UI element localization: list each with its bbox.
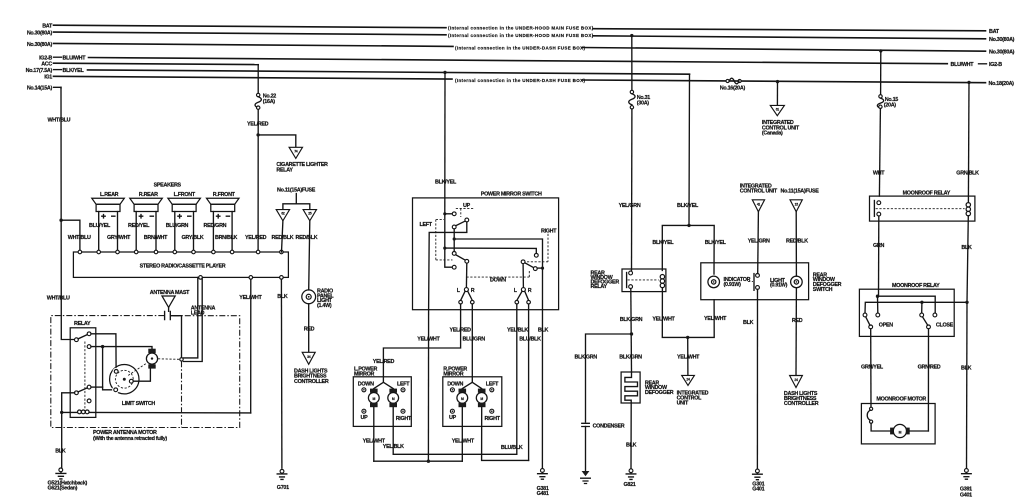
svg-text:L: L	[514, 288, 518, 294]
junction dot3 BLK	[541, 267, 544, 270]
ground condenser (filled)	[582, 471, 590, 476]
wire relay coil down to YEL/WHT merge	[662, 288, 687, 338]
box MOONROOF SWITCH (labelled MOONROOF RELAY)	[859, 289, 954, 336]
wire WHT/BLU branch to radio	[61, 220, 80, 250]
wire BLK to ground G391/G401	[966, 302, 969, 468]
svg-text:RED/YEL: RED/YEL	[128, 223, 150, 229]
svg-text:L.REAR: L.REAR	[100, 192, 119, 198]
contact E	[465, 259, 469, 263]
svg-text:YEL/GRN: YEL/GRN	[748, 238, 770, 244]
lamp LIGHT	[791, 276, 803, 288]
dash-dot link motor to antenna junction	[158, 358, 180, 361]
contact relay lower throw A	[87, 385, 91, 389]
contact defogger relay bottom	[629, 285, 633, 289]
symbol circle-dot DOWN (R)	[450, 388, 454, 392]
wire E to L-R selector left	[465, 263, 467, 288]
svg-text:ANTENNA MAST: ANTENNA MAST	[150, 290, 190, 296]
svg-text:YEL/RED: YEL/RED	[245, 235, 267, 241]
svg-text:G401: G401	[752, 487, 764, 493]
wire R motor1 return YEL/WHT	[461, 407, 463, 461]
svg-text:WHT/BLU: WHT/BLU	[47, 296, 70, 302]
svg-text:(Internal connection in the UN: (Internal connection in the UNDER-DASH F…	[455, 45, 585, 50]
ground G381/G481	[541, 469, 545, 473]
wire BLK/GRN main from relay	[630, 289, 633, 373]
motor L2	[389, 389, 397, 393]
box RELAY (power antenna)	[70, 328, 96, 418]
symbol circle-dot UP (L)	[362, 409, 366, 413]
wire YEL/GRN ICU to switch	[757, 212, 760, 274]
junction YEL/RED to cigarette lighter relay	[256, 133, 259, 136]
svg-text:DEFOGGER: DEFOGGER	[645, 390, 674, 396]
fork YEL/RED to motors (L)	[374, 382, 393, 388]
svg-text:RED: RED	[792, 318, 803, 324]
svg-text:(20A): (20A)	[884, 103, 896, 109]
svg-text:R: R	[528, 288, 532, 294]
relay arm bar	[626, 273, 628, 288]
switch arm relay lower	[78, 388, 87, 392]
dashed link motor to limit switch	[128, 364, 146, 376]
svg-text:YEL/WHT: YEL/WHT	[652, 316, 675, 322]
wire No.31 drop from No.30 lane1	[631, 36, 633, 91]
svg-text:G401: G401	[960, 492, 972, 498]
wire BLK return to CLOSE left contact	[921, 302, 923, 313]
wire limit switch wiper to motor lower brush	[133, 369, 150, 382]
svg-text:WHT/BLU: WHT/BLU	[48, 118, 71, 124]
svg-text:DOWN: DOWN	[490, 278, 506, 284]
symbol circle-dot LEFT (R)	[490, 388, 494, 392]
svg-text:YEL/RED: YEL/RED	[247, 121, 269, 127]
contact OPEN right	[876, 313, 880, 317]
wire YEL/BLK	[516, 304, 518, 454]
svg-text:YEL/WHT: YEL/WHT	[239, 295, 262, 301]
svg-text:BLU/BLK: BLU/BLK	[501, 445, 523, 451]
svg-text:L.FRONT: L.FRONT	[174, 192, 196, 198]
dashed link arm to coil	[628, 279, 659, 281]
svg-text:MIRROR: MIRROR	[354, 371, 374, 377]
svg-text:LEFT: LEFT	[420, 222, 433, 228]
contact D	[452, 252, 456, 256]
svg-text:MOONROOF MOTOR: MOONROOF MOTOR	[876, 396, 926, 402]
svg-text:IG2-B: IG2-B	[989, 62, 1002, 68]
relay arm bar (moonroof)	[873, 201, 875, 217]
svg-text:BLK: BLK	[743, 320, 754, 326]
wire coupling to drive line	[171, 316, 182, 358]
svg-text:DOWN: DOWN	[447, 381, 463, 387]
svg-text:BLK/YEL: BLK/YEL	[677, 203, 699, 209]
svg-text:25: 25	[308, 212, 312, 216]
svg-text:R.FRONT: R.FRONT	[213, 192, 236, 198]
breaker arc	[867, 410, 870, 420]
junction WHT/BLU to radio	[59, 219, 62, 222]
junction YEL/WHT merge	[686, 336, 689, 339]
svg-text:(Internal connection in the UN: (Internal connection in the UNDER-HOOD M…	[448, 33, 594, 38]
svg-text:RED/BLK: RED/BLK	[786, 238, 808, 244]
wire BLK from radio bottom to G701	[280, 279, 283, 468]
switch arm relay upper	[78, 335, 87, 339]
wire coil line to YEL/WHT run	[62, 411, 251, 414]
junction IG1 to ICU Canada drop	[776, 80, 779, 83]
label DOWN with dashed link	[467, 271, 530, 277]
wire BLK return line	[865, 302, 967, 313]
wire BLK to G821	[630, 403, 632, 469]
ground G391/G401	[965, 469, 969, 473]
svg-text:M: M	[899, 430, 902, 434]
wire ACC bus line	[54, 63, 259, 64]
svg-text:41: 41	[757, 203, 761, 207]
contact relay upper common	[75, 338, 79, 342]
wire YEL/GRN from fuse No.31 to defogger relay	[631, 109, 633, 271]
svg-text:BLK/YEL: BLK/YEL	[705, 240, 727, 246]
svg-text:BRN/BLK: BRN/BLK	[215, 235, 238, 241]
svg-text:WHT/BLU: WHT/BLU	[68, 235, 91, 241]
contact C	[452, 225, 456, 229]
wire WHT/BLU main vertical	[61, 87, 75, 339]
wire RED/BLK to radio	[282, 221, 283, 252]
wire I to BLK riser	[537, 267, 542, 269]
switch contacts (defogger switch)	[756, 274, 760, 278]
svg-text:SPEAKERS: SPEAKERS	[154, 183, 182, 189]
contact CLOSE bottom	[927, 325, 931, 329]
SEC-DEFOG	[575, 74, 842, 492]
coil power antenna relay	[78, 410, 82, 414]
contact OPEN left	[863, 313, 867, 317]
junction column to right switch feed	[453, 237, 456, 240]
wire IG2-B BLU/WHT bus line	[54, 56, 62, 58]
wire breaker to motor	[871, 423, 890, 431]
SEC-SPEAKERS	[89, 183, 318, 252]
contact G	[521, 260, 525, 264]
wire lower ground net	[62, 393, 75, 468]
wire GRN/YEL to motor	[870, 329, 872, 408]
wire No.30(80A) bus line 2	[54, 43, 454, 46]
svg-text:LEFT: LEFT	[486, 381, 499, 387]
contact moonroof relay top	[877, 201, 881, 205]
svg-text:YEL/BLK: YEL/BLK	[507, 328, 528, 334]
wire BLK/YEL continues to dot2	[445, 214, 453, 267]
wire No.17(7.5A) BLK/YEL bus line	[54, 69, 62, 71]
motor L1	[370, 389, 378, 393]
wire GRN feed to CLOSE side	[878, 296, 936, 313]
junction on BLK/YEL lane at mirror-switch drop	[443, 71, 446, 74]
wire G to L-R selector right	[522, 264, 524, 288]
wire dot2 to contact H	[445, 248, 537, 253]
svg-text:DOWN: DOWN	[358, 381, 374, 387]
svg-text:BLU/BLK: BLU/BLK	[519, 336, 541, 342]
SEC-RADIO	[73, 188, 334, 491]
svg-text:UP: UP	[449, 415, 457, 421]
svg-text:15: 15	[795, 203, 799, 207]
svg-text:RED: RED	[304, 326, 315, 332]
antenna lead double line	[183, 277, 197, 358]
svg-text:CONDENSER: CONDENSER	[593, 424, 625, 430]
svg-text:(Canada): (Canada)	[762, 131, 783, 137]
wire BLU/BLK	[528, 304, 530, 460]
wire relay throw NC to limit switch top contact	[91, 334, 116, 370]
junction dot2	[443, 247, 446, 250]
antenna mast symbol	[162, 296, 175, 307]
svg-text:No.30(80A): No.30(80A)	[27, 31, 53, 37]
wire stub to contact A	[445, 213, 453, 215]
box MOONROOF RELAY	[870, 196, 975, 221]
svg-text:RELAY: RELAY	[591, 284, 608, 290]
svg-text:M: M	[392, 397, 395, 401]
contact OPEN bottom	[869, 325, 873, 329]
svg-text:(With the antenna retracted fu: (With the antenna retracted fully)	[93, 436, 167, 442]
box REAR WINDOW DEFOGGER SWITCH	[701, 263, 809, 300]
fuse No.31 (30A)	[630, 90, 633, 93]
svg-text:CONTROLLER: CONTROLLER	[294, 379, 329, 385]
svg-text:IG1: IG1	[44, 75, 52, 81]
svg-text:BLK: BLK	[538, 328, 549, 334]
contact limit switch wiper	[129, 379, 133, 383]
box STEREO RADIO/CASSETTE PLAYER	[73, 252, 288, 277]
wire RED to dash lights controller (right)	[795, 288, 797, 376]
svg-text:G821: G821	[624, 482, 636, 488]
wire condenser to ground	[585, 427, 587, 472]
terminals radio bottom edge	[199, 276, 203, 280]
fuse No.22 (16A)	[257, 93, 260, 96]
svg-text:24: 24	[794, 378, 798, 382]
dashed link arm to coil (moonroof)	[876, 208, 965, 210]
wire GRN/RED to motor	[927, 329, 929, 431]
drive motor (power antenna)	[148, 349, 155, 353]
svg-text:RIGHT: RIGHT	[541, 229, 557, 235]
svg-text:BLU/WHT: BLU/WHT	[63, 56, 87, 62]
contact relay upper throw NC	[87, 332, 91, 336]
svg-text:LIMIT SWITCH: LIMIT SWITCH	[122, 401, 156, 407]
switch arm CLOSE	[923, 317, 928, 325]
svg-text:No.18(20A): No.18(20A)	[989, 81, 1015, 87]
svg-text:GRN/RED: GRN/RED	[918, 364, 941, 370]
svg-text:74: 74	[294, 149, 298, 153]
junction No.30 lane2 to No.15 fuse drop	[879, 49, 882, 52]
wire relay throw NO to drive motor top	[91, 347, 152, 349]
wire BLK switch to G301/G401	[756, 289, 758, 468]
junction GRN feed	[876, 295, 879, 298]
wire R motor2 BLU/BLK	[482, 407, 529, 460]
switch arm A-B cluster	[456, 221, 465, 226]
svg-text:RED/BLK: RED/BLK	[296, 235, 318, 241]
svg-text:MOONROOF RELAY: MOONROOF RELAY	[903, 190, 951, 196]
junction BLK/YEL at contact A	[443, 212, 446, 215]
svg-text:CONTROL UNIT: CONTROL UNIT	[740, 189, 778, 195]
connector triangle 25 (RED/BLK to panel light)	[303, 210, 316, 221]
svg-text:24: 24	[686, 377, 690, 381]
svg-text:BLK: BLK	[55, 448, 66, 454]
motor R1	[459, 389, 467, 393]
wire BLK/YEL main drop	[688, 74, 691, 225]
svg-text:POWER MIRROR SWITCH: POWER MIRROR SWITCH	[481, 192, 542, 198]
svg-text:YEL/WHT: YEL/WHT	[452, 438, 475, 444]
breaker contact top	[870, 407, 873, 410]
SEC-MOONROOF	[859, 82, 979, 498]
junction ground net to coil	[60, 411, 63, 414]
breaker contact bottom	[870, 420, 873, 423]
junction No.30 lane1 to No.31 fuse drop	[630, 34, 633, 37]
symbol circle-dot UP (R)	[450, 409, 454, 413]
terminals radio top edge	[78, 250, 82, 254]
wire GRN relay to moonroof switch	[878, 216, 880, 296]
svg-text:No.30(80A): No.30(80A)	[989, 49, 1015, 55]
contact moonroof relay bottom	[877, 212, 881, 216]
svg-text:UNIT: UNIT	[677, 401, 689, 407]
contact relay lower throw B	[87, 399, 91, 403]
wire GRN feed to OPEN right contact	[877, 296, 879, 313]
svg-text:(0.91W): (0.91W)	[770, 283, 788, 289]
wire No.15 drop from No.30 lane2	[880, 51, 882, 95]
connector cigarette lighter relay triangle	[289, 147, 302, 158]
svg-text:R: R	[471, 288, 475, 294]
svg-text:GRY/WHT: GRY/WHT	[107, 235, 131, 241]
svg-text:RELAY: RELAY	[276, 167, 293, 173]
svg-text:YEL/WHT: YEL/WHT	[704, 316, 727, 322]
svg-text:No.30(80A): No.30(80A)	[27, 42, 53, 48]
box POWER MIRROR SWITCH	[413, 198, 559, 310]
svg-text:BLK: BLK	[961, 366, 972, 372]
wire B to YEL/WHT exit	[429, 222, 467, 310]
lamp RADIO PANEL LIGHT	[302, 290, 316, 304]
svg-text:GRN/BLK: GRN/BLK	[956, 170, 979, 176]
symbol circle-dot LEFT (L)	[401, 388, 405, 392]
svg-text:No.14(15A): No.14(15A)	[27, 86, 53, 92]
SEC-MIRROR	[353, 72, 558, 496]
wire No.30(80A) bus line 1	[54, 32, 447, 35]
svg-text:CONTROLLER: CONTROLLER	[784, 401, 819, 407]
wire relay lower throw A join	[91, 386, 103, 388]
svg-text:YEL/WHT: YEL/WHT	[417, 336, 440, 342]
connector dash lights triangle (right)	[790, 376, 803, 388]
svg-text:BLK: BLK	[277, 294, 288, 300]
junction YEL/WHT common	[427, 460, 430, 463]
svg-text:RED/GRN: RED/GRN	[204, 223, 227, 229]
wire BAT bus line	[54, 25, 447, 28]
svg-text:(1.4W): (1.4W)	[317, 303, 332, 309]
svg-text:G621(Sedan): G621(Sedan)	[48, 486, 78, 492]
bracket fuse connectors	[283, 194, 310, 210]
svg-text:GRN: GRN	[873, 243, 884, 249]
box REAR WINDOW DEFOGGER RELAY	[622, 269, 666, 292]
contact relay upper throw NO	[87, 345, 91, 349]
box POWER ANTENNA MOTOR dash-dot outline	[51, 316, 240, 428]
svg-text:BLK/YEL: BLK/YEL	[652, 240, 674, 246]
wire branch to cigarette lighter relay	[258, 135, 296, 147]
junction at x102.6	[101, 345, 104, 348]
dashed tick	[748, 281, 753, 283]
wire RED to dash lights controller	[308, 304, 310, 353]
box R.POWER MIRROR	[443, 377, 502, 427]
contact CLOSE left	[920, 313, 924, 317]
svg-text:No.11(15A)FUSE: No.11(15A)FUSE	[277, 188, 316, 194]
box MOONROOF MOTOR	[861, 404, 935, 444]
symbol circle-dot RIGHT (L)	[401, 409, 405, 413]
svg-text:YEL/GRN: YEL/GRN	[619, 203, 641, 209]
wire BLU/GRN to R mirror	[471, 304, 473, 382]
svg-text:BLK/YEL: BLK/YEL	[435, 180, 457, 186]
wire RED/BLK fuse to light	[795, 212, 797, 276]
svg-text:MIRROR: MIRROR	[443, 371, 463, 377]
limit switch center dot	[123, 378, 126, 381]
svg-text:BLU/YEL: BLU/YEL	[89, 223, 111, 229]
connector dash lights brightness controller triangle (left)	[302, 352, 315, 364]
svg-text:No.16(20A): No.16(20A)	[720, 85, 746, 91]
mast coupling bars	[165, 311, 171, 319]
contact limit switch lower-left	[114, 388, 118, 392]
motor R2	[478, 389, 486, 393]
svg-text:G481: G481	[537, 491, 549, 497]
wire condenser branch	[586, 334, 632, 422]
svg-text:R.REAR: R.REAR	[139, 192, 158, 198]
contact limit switch top	[114, 370, 118, 374]
junction BLK return at close	[920, 301, 923, 304]
wire YEL/WHT switch return	[427, 310, 429, 462]
box L.POWER MIRROR	[353, 377, 411, 427]
svg-text:RIGHT: RIGHT	[396, 416, 412, 422]
svg-text:YEL/RED: YEL/RED	[450, 328, 472, 334]
svg-text:No.30(80A): No.30(80A)	[989, 37, 1015, 43]
svg-text:(Internal connection in the UN: (Internal connection in the UNDER-DASH F…	[455, 78, 585, 83]
svg-text:(16A): (16A)	[263, 99, 275, 105]
svg-text:BLK: BLK	[626, 442, 637, 448]
svg-text:No.17(7.5A): No.17(7.5A)	[26, 68, 53, 74]
contact CLOSE right	[933, 313, 937, 317]
fork BLU/GRN to motors (R)	[462, 382, 481, 388]
wire L motor2 YEL/BLK	[393, 407, 517, 454]
svg-text:(0.91W): (0.91W)	[724, 282, 742, 288]
svg-text:RIGHT: RIGHT	[485, 416, 501, 422]
symbol circle-dot DOWN (L)	[362, 388, 366, 392]
wire junction down to limit switch lower-left contact	[103, 347, 114, 390]
contact defogger relay top	[629, 271, 633, 275]
ground G821	[629, 469, 633, 473]
wire antenna drive dash-dot lower	[181, 361, 183, 427]
svg-text:BLU/GRN: BLU/GRN	[463, 336, 486, 342]
svg-text:No.11(15A)FUSE: No.11(15A)FUSE	[781, 189, 820, 195]
svg-text:(Internal connection in the UN: (Internal connection in the UNDER-HOOD M…	[448, 26, 594, 31]
wire motor to GRN/RED leg	[910, 430, 929, 432]
connector fuse triangle above switch	[790, 200, 802, 212]
svg-text:BLK/GRN: BLK/GRN	[575, 354, 598, 360]
wire contact column C-D	[453, 229, 455, 252]
svg-text:MOONROOF RELAY: MOONROOF RELAY	[892, 283, 940, 289]
svg-text:L: L	[457, 288, 461, 294]
wire No.14(15A) stub	[54, 86, 62, 89]
wire BLK/YEL branch right to defogger switch	[689, 225, 714, 274]
svg-text:BLK/GRN: BLK/GRN	[620, 317, 643, 323]
svg-text:M: M	[480, 397, 483, 401]
switch arm G-I	[525, 263, 534, 268]
mechanical link relay dotted	[84, 342, 86, 410]
junction BLK/YEL branch	[687, 224, 690, 227]
capacitor CONDENSER	[582, 423, 590, 426]
svg-text:ACC: ACC	[41, 62, 52, 68]
circuit breaker No.16(20A) on IG1 lane	[726, 79, 729, 82]
svg-text:61: 61	[776, 107, 780, 111]
ground G521/G621	[59, 468, 63, 472]
svg-text:LEFT: LEFT	[397, 381, 410, 387]
svg-text:62: 62	[281, 212, 285, 216]
wire YEL/RED to L mirror	[383, 304, 460, 382]
svg-text:STEREO RADIO/CASSETTE PLAYER: STEREO RADIO/CASSETTE PLAYER	[140, 263, 226, 269]
wire BLK/YEL branch left to relay coil	[662, 225, 689, 270]
svg-text:BLU/GRN: BLU/GRN	[166, 223, 189, 229]
svg-text:YEL/BLK: YEL/BLK	[383, 444, 404, 450]
svg-text:BAT: BAT	[42, 24, 53, 30]
coil defogger relay	[660, 275, 664, 279]
motor moonroof	[890, 428, 894, 435]
svg-text:YEL/RED: YEL/RED	[373, 359, 395, 365]
fuse No.15 (20A)	[879, 95, 882, 98]
wire defogger switch indicator down to merge	[688, 300, 715, 338]
